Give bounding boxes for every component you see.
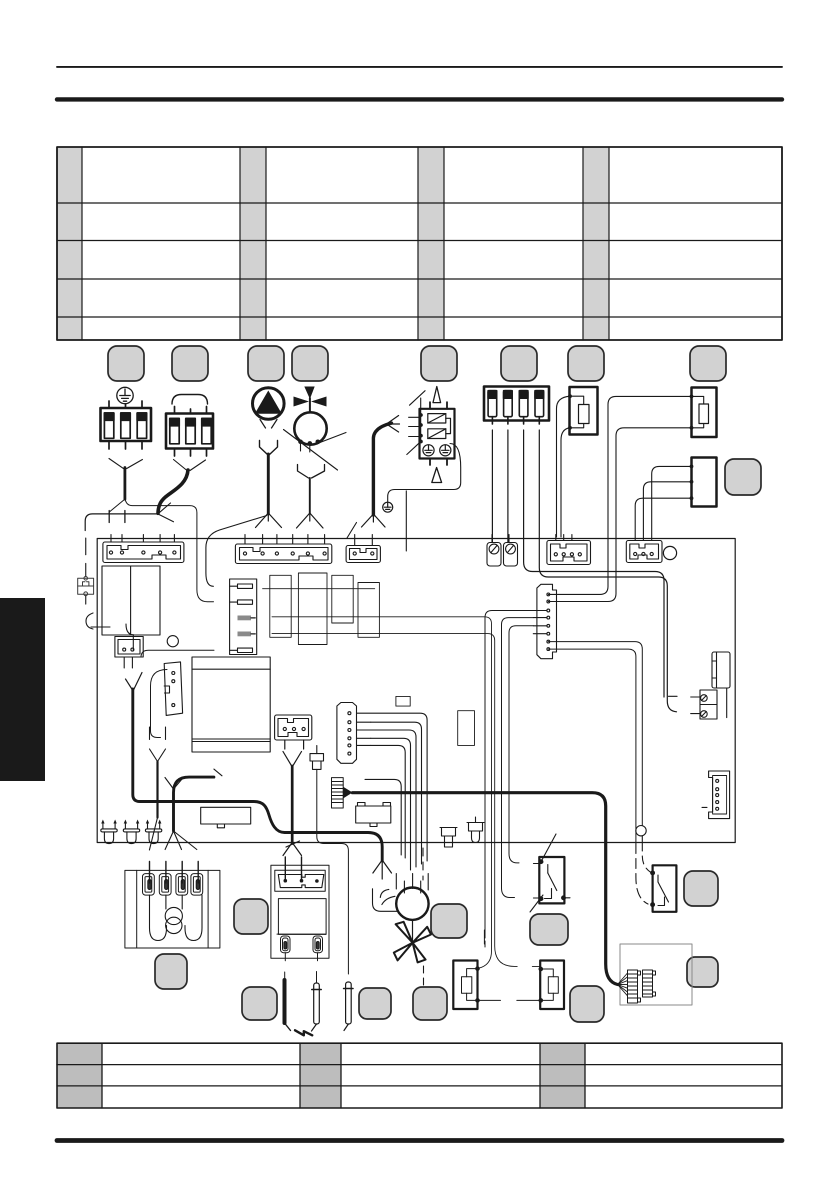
wire: X15 left harness drops — [485, 611, 541, 948]
flow sensor box — [570, 387, 598, 435]
wire: thick S-curve under X5 — [158, 470, 188, 513]
spark gap 2 — [428, 429, 446, 439]
connector X12 slanted — [164, 662, 182, 716]
wire: thin branch to right — [125, 496, 214, 602]
wire: bottom thick rule — [57, 1138, 782, 1143]
connector X6 — [547, 535, 591, 565]
flow switch S1 — [539, 857, 564, 903]
wire: long internal links — [263, 589, 541, 968]
wire: dashed DHW line — [422, 848, 424, 880]
mounting hole circle — [663, 546, 676, 559]
wire: dashed tails — [109, 511, 125, 523]
wire: thick pump feed with tail — [214, 769, 222, 776]
outside sensor box — [692, 388, 717, 438]
diverter valve motor: propeller — [294, 387, 327, 407]
PCB outline — [97, 539, 735, 843]
spark gap 1 — [428, 414, 451, 434]
fuse element small — [310, 746, 324, 770]
earth symbol small — [383, 502, 393, 512]
wire: electrode leads — [285, 953, 318, 983]
wire: top thick rule — [57, 97, 782, 101]
wire: 8-pin connector X15 — [533, 584, 556, 658]
terminal block X4 (3 fuse cartridges) — [101, 401, 152, 449]
screw terminal block right — [691, 690, 717, 719]
left edge fuse link — [78, 538, 94, 604]
wire: X8 leads + thick drop — [283, 740, 304, 767]
wire: Y bracket under valve — [298, 465, 325, 479]
relay box K2 — [201, 807, 251, 828]
black side tab — [0, 598, 45, 781]
wire: loops inside plate — [150, 895, 203, 940]
wire: valve diagonal leads — [284, 430, 338, 471]
connector X7 — [626, 541, 662, 563]
terminal strip X5b — [346, 535, 380, 563]
wire: fan harness bundle — [357, 713, 428, 870]
harness grommet plate — [125, 870, 220, 948]
terminal block X5 (3 fuse cartridges) — [166, 407, 213, 457]
microswitch dots on valve — [298, 440, 320, 446]
relay box K1 — [102, 566, 160, 635]
wire: flow sensor leads — [557, 396, 570, 537]
5-pin connector X10 right — [702, 771, 730, 819]
spark generator body — [420, 409, 455, 459]
sensing electrode — [312, 983, 322, 1031]
wire: crow cross at left — [158, 503, 174, 522]
wire: thick pump lead — [267, 454, 270, 514]
ghost component outlines — [270, 573, 475, 745]
mounting hole — [167, 636, 178, 647]
transformer box — [192, 657, 270, 752]
display connector frame — [618, 944, 693, 1005]
watchdog circle on bottom edge — [636, 826, 646, 836]
terminal strip X1 — [103, 535, 184, 563]
connector X11 small — [115, 637, 143, 669]
pump symbol — [252, 388, 284, 428]
wire: valve lead — [309, 478, 311, 513]
wire: ignition electrode feed — [317, 769, 349, 974]
gas valve assembly — [271, 857, 329, 958]
wire: crow foot under block X5 — [174, 460, 206, 471]
third electrode — [344, 982, 353, 1031]
wire: thick stem under X4 — [124, 468, 127, 500]
wire: X15 right drops to switches — [548, 642, 642, 843]
wire: room stat leads — [635, 466, 691, 540]
wire: crow foot HT — [362, 514, 386, 527]
terminal strip X3 — [235, 535, 331, 564]
wire: crow foot valve — [297, 513, 324, 528]
PCB studs bottom left — [101, 820, 162, 844]
wire: left feed bus — [85, 514, 156, 531]
wire: thick HT lead — [373, 423, 391, 515]
room stat connector box — [692, 458, 717, 507]
wire: crow fan-out to harness plate — [149, 818, 196, 851]
node dots — [419, 413, 423, 437]
triangle up — [433, 387, 441, 403]
wire: earth link to PCB — [388, 444, 461, 503]
wire: plate entry ticks — [150, 862, 199, 884]
wire: link to edge connector — [141, 650, 214, 656]
wire: thick display harness — [353, 793, 618, 985]
earth symbol above terminal block 1 — [117, 387, 133, 403]
wire: Y + thick mains harness — [126, 673, 143, 691]
relay box K3 — [356, 803, 391, 827]
IDC comb with wedge — [332, 778, 344, 808]
wire: bracket wire — [151, 670, 168, 738]
fuse holder F2 — [504, 535, 518, 567]
wire: outside sensor leads — [548, 396, 691, 601]
wire: fuse leads to PCB — [492, 430, 677, 712]
wire: crow arrow left — [387, 416, 400, 433]
spark flash — [295, 1030, 312, 1035]
DHW sensor box left — [453, 961, 477, 1010]
wire: crow foot under block X4 — [88, 459, 142, 472]
earth circles in body — [423, 445, 451, 456]
fan assembly — [373, 874, 432, 963]
spark electrode (filled) — [283, 980, 287, 1023]
wire: dash into sensor — [483, 930, 485, 944]
terminal block X2 (4 cartridges) — [484, 387, 549, 421]
HT slash lines — [407, 391, 425, 455]
wire: Y bracket under pump — [260, 441, 278, 455]
pressure switch S2 — [653, 865, 677, 912]
wire: X12 tails + Y — [150, 727, 166, 818]
propeller — [394, 922, 431, 963]
fuse holder F1 — [487, 535, 501, 567]
wire: crow foot fan supply — [373, 860, 392, 879]
triangle down — [432, 468, 442, 483]
DHW sensor box right — [540, 961, 564, 1010]
wire: diagonal to pump foot — [206, 516, 267, 587]
wire: drop to PCB — [405, 491, 407, 551]
bracket arc over terminal block X5 — [172, 395, 208, 405]
wire: top thin rule — [57, 66, 782, 68]
PCB studs bottom centre — [440, 817, 484, 847]
edge connector comb — [230, 579, 257, 655]
7-pin connector X9 — [337, 703, 371, 764]
connector X8 3pin — [275, 715, 312, 740]
diverter valve body circle — [294, 412, 326, 444]
clip component right — [712, 652, 730, 718]
wire: crow foot pump — [256, 513, 282, 528]
